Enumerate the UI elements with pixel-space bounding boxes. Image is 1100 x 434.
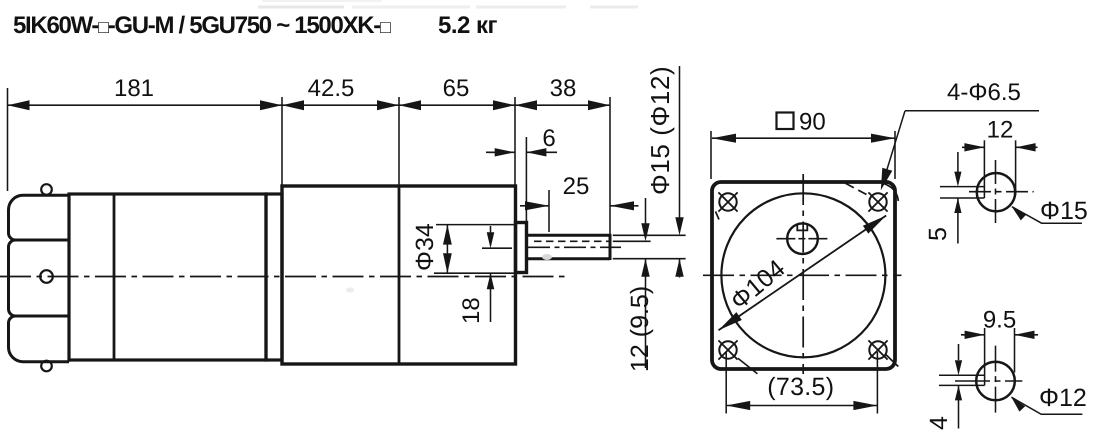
dim phi34 line with arrows — [446, 225, 448, 274]
bottom-left whisker line — [738, 358, 758, 373]
phi12 keyway slot top line — [939, 374, 985, 376]
shaft centerline — [528, 246, 621, 248]
output shaft top line — [527, 234, 611, 237]
output shaft bottom line — [527, 257, 611, 260]
extension line shaft end — [609, 97, 611, 234]
dim 73.5 line — [726, 405, 877, 407]
svg-text:6: 6 — [542, 125, 555, 152]
extension line motor rear face — [7, 88, 9, 191]
svg-text:90: 90 — [799, 109, 826, 136]
phi15 leader line — [1012, 207, 1082, 224]
arrow pair at 65/38 boundary — [493, 100, 515, 110]
shaft top extension line right — [613, 234, 686, 236]
phi12 section circle — [976, 362, 1015, 401]
svg-text:4-Φ6.5: 4-Φ6.5 — [947, 79, 1021, 106]
dim 6 right arrow and tail — [526, 148, 546, 156]
svg-text:Φ34: Φ34 — [411, 223, 439, 271]
dim phi15(phi12) upper tail and arrow — [679, 66, 681, 221]
shaft flat hidden line — [534, 240, 609, 242]
phi15 horizontal centerline — [969, 191, 1034, 193]
dim 6 left tail — [486, 151, 515, 153]
extension line gearcase mid boundary — [398, 97, 400, 185]
svg-text:5.2 кг: 5.2 кг — [438, 12, 498, 39]
svg-text:38: 38 — [550, 75, 577, 102]
motor rear cover middle section — [9, 240, 70, 316]
dim phi15(phi12) lower arrow and tail — [675, 259, 683, 277]
dim 73.5 right extension — [876, 352, 878, 414]
arrow right end of 38 — [588, 100, 610, 110]
leader line to top-right hole — [886, 111, 905, 172]
bolt hole top-left — [719, 193, 736, 210]
svg-text:12: 12 — [987, 117, 1014, 144]
phi15 section circle — [977, 173, 1015, 211]
svg-text:Φ15: Φ15 — [1040, 197, 1088, 225]
rear cover right edge — [68, 194, 71, 362]
extension line shaft flat start — [548, 190, 550, 232]
dim 12 line with outside arrows — [964, 143, 984, 151]
dim 18 lower arrow and tail — [487, 273, 495, 289]
dim 25 line with outside arrows — [525, 201, 549, 210]
output shaft end line — [609, 234, 612, 260]
bolt hole bottom-left — [719, 341, 736, 358]
rear cover top screw — [41, 184, 52, 195]
flange square outline — [712, 182, 895, 369]
top-left corner hidden dash — [716, 212, 720, 220]
phi15 slot bottom / dim12 left extension — [983, 140, 985, 198]
extension line boss end — [525, 137, 527, 221]
svg-text:5: 5 — [924, 227, 952, 241]
phi12 horizontal centerline — [955, 380, 1022, 382]
leader arrowhead 4-phi6.5 — [881, 168, 893, 191]
svg-text:25: 25 — [563, 173, 590, 200]
phi15 vertical centerline — [995, 160, 997, 226]
dimension chain line 181/42.5/65/38 — [8, 104, 611, 106]
dim 73.5 arrows — [726, 401, 750, 410]
bottom-right corner whisker — [886, 355, 898, 367]
extension line gearbox front face — [514, 97, 516, 187]
dim 73.5 left extension — [725, 352, 727, 414]
top-right corner arc — [884, 184, 899, 202]
phi12 keyway slot bottom line — [939, 384, 985, 386]
front horizontal centerline — [703, 274, 902, 276]
svg-text:12 (9.5): 12 (9.5) — [626, 286, 654, 372]
phi12 slot bottom / dim9.5 left extension — [984, 328, 986, 385]
shaft circle front view — [787, 223, 818, 254]
front keyway notch — [797, 224, 807, 231]
label square 90 box symbol — [777, 113, 794, 130]
dim square90 line — [712, 137, 895, 139]
dim phi104 diagonal line — [719, 216, 887, 331]
svg-text:5IK60W-□-GU-M / 5GU750 ~ 1500X: 5IK60W-□-GU-M / 5GU750 ~ 1500XK-□ — [13, 12, 391, 39]
phi12 leader line — [1011, 397, 1082, 414]
dim phi104 arrows — [863, 216, 886, 234]
gear housing outline — [282, 186, 516, 364]
dim 18 top tick — [482, 247, 512, 249]
svg-text:9.5: 9.5 — [983, 307, 1016, 334]
shaft flat extension line right — [613, 240, 651, 242]
output boss — [516, 223, 527, 273]
leader underline 4-phi6.5 — [905, 110, 1039, 112]
faint scan speck — [542, 254, 552, 260]
dim 12(9.5) lower arrow and tail — [641, 259, 649, 277]
arrow pair at 181/42.5 boundary — [260, 100, 282, 110]
motor rear cover bottom section — [9, 316, 70, 362]
motor body outline — [69, 194, 266, 360]
dim square90 arrows — [712, 134, 736, 143]
svg-text:(73.5): (73.5) — [767, 373, 834, 401]
extension line motor/gearcase boundary — [281, 97, 283, 185]
arrow left end of 181 — [8, 100, 30, 110]
svg-text:65: 65 — [443, 75, 470, 102]
dim 6 left arrow — [495, 148, 515, 156]
bolt hole bottom-right — [869, 341, 886, 358]
dim phi34 top extension — [436, 224, 514, 226]
gearcase circle — [721, 193, 885, 357]
svg-text:18: 18 — [458, 297, 485, 324]
phi15 keyway slot bottom line — [940, 197, 984, 199]
dim 18 upper arrow — [490, 226, 492, 240]
shaft circle horizontal tick — [776, 238, 830, 240]
rear cover center hub circle — [40, 270, 53, 283]
svg-text:181: 181 — [114, 75, 154, 102]
svg-text:42.5: 42.5 — [308, 75, 355, 102]
arrow pair at 42.5/65 boundary — [377, 100, 399, 110]
phi15 keyway slot top line — [940, 186, 984, 188]
phi12 leader arrow — [1011, 397, 1025, 411]
motor body rib line — [113, 194, 116, 360]
dim 5 lower arrow and tail — [954, 198, 961, 213]
svg-text:Φ12: Φ12 — [1039, 384, 1087, 412]
bolt hole top-right — [869, 193, 886, 210]
dim square90 right extension — [894, 131, 896, 179]
dim phi34 bottom extension — [434, 272, 514, 274]
dim square90 left extension — [710, 131, 712, 179]
dim 12(9.5) upper tail and arrow — [645, 198, 647, 227]
dim 9.5 right extension — [1014, 328, 1016, 373]
top-right hidden dashes — [845, 183, 867, 195]
motor rear cover top section — [9, 195, 70, 240]
svg-text:Φ104: Φ104 — [725, 254, 790, 315]
rear cover bottom screw — [41, 361, 52, 372]
shaft bottom extension line right — [613, 258, 686, 260]
motor front ring — [266, 194, 282, 360]
motor centerline — [0, 276, 569, 278]
dim 4 lower arrow and tail — [955, 385, 962, 400]
front vertical centerline — [802, 174, 804, 374]
svg-text:4: 4 — [925, 416, 953, 430]
dim 4 upper tail and arrow — [958, 344, 960, 360]
dim 9.5 line with outside arrows — [965, 331, 985, 339]
dim 12 right extension — [1015, 140, 1017, 195]
phi15 leader arrow — [1012, 207, 1026, 221]
svg-text:Φ15 (Φ12): Φ15 (Φ12) — [645, 66, 675, 195]
gear housing mid line — [398, 186, 401, 364]
dim 5 upper tail and arrow — [957, 152, 959, 172]
faint scan ghost marks top — [258, 6, 344, 9]
phi12 vertical centerline — [995, 346, 997, 415]
